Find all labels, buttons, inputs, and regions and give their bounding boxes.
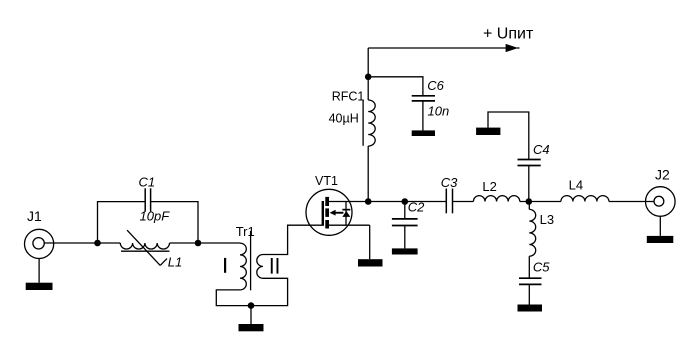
svg-text:L4: L4 xyxy=(569,177,583,192)
svg-text:+ Uпит: + Uпит xyxy=(483,25,534,42)
svg-text:C4: C4 xyxy=(533,142,550,157)
svg-text:J1: J1 xyxy=(27,208,42,224)
svg-text:RFC1: RFC1 xyxy=(332,89,365,103)
svg-text:C1: C1 xyxy=(139,175,156,190)
svg-text:J2: J2 xyxy=(655,166,670,182)
svg-text:L1: L1 xyxy=(168,255,182,270)
svg-text:10pF: 10pF xyxy=(140,209,171,224)
svg-text:C3: C3 xyxy=(441,175,458,190)
svg-text:C2: C2 xyxy=(408,200,425,215)
svg-text:VT1: VT1 xyxy=(315,174,338,188)
svg-text:40µH: 40µH xyxy=(329,112,359,126)
svg-text:C6: C6 xyxy=(427,78,444,93)
svg-text:C5: C5 xyxy=(533,259,550,274)
svg-text:L3: L3 xyxy=(540,212,554,227)
svg-text:10n: 10n xyxy=(428,103,450,118)
svg-text:L2: L2 xyxy=(482,179,496,194)
svg-text:Tr1: Tr1 xyxy=(236,224,255,239)
